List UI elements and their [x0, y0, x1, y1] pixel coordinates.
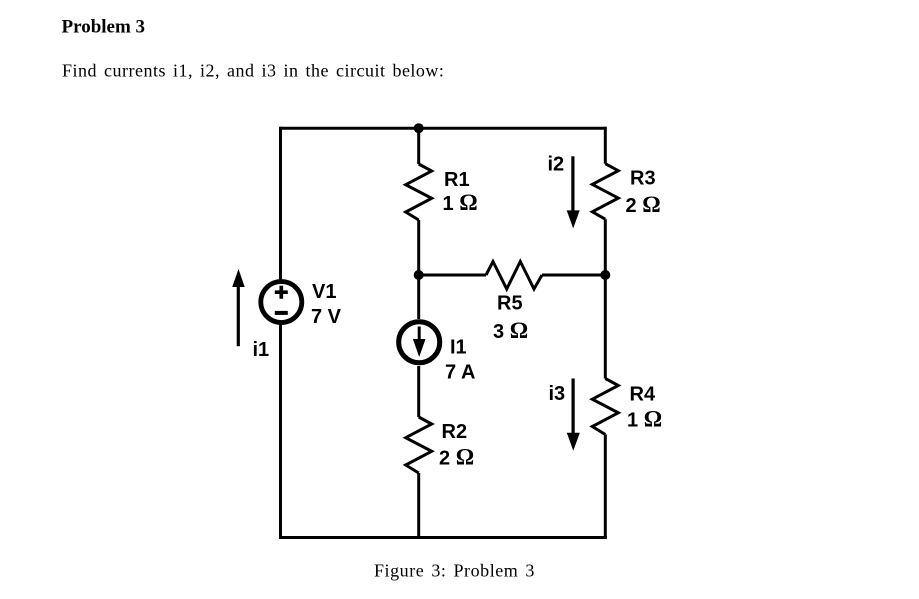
- svg-text:2 Ω: 2 Ω: [626, 192, 661, 217]
- wire middle top (node to R1): [417, 128, 420, 164]
- svg-text:i1: i1: [253, 339, 270, 361]
- resistor R3: [592, 164, 660, 220]
- svg-text:i3: i3: [549, 383, 566, 405]
- current arrow i3: [549, 379, 580, 451]
- wire I1 to R2: [417, 366, 420, 417]
- svg-text:1 Ω: 1 Ω: [627, 407, 662, 432]
- node right junction: [600, 270, 610, 280]
- svg-text:Problem 3: Problem 3: [62, 17, 146, 38]
- node middle junction: [414, 270, 424, 280]
- current source I1: [399, 322, 476, 384]
- wire R3 to right node: [604, 219, 607, 275]
- svg-text:V1: V1: [312, 281, 336, 303]
- wire R2 to bottom: [417, 473, 420, 538]
- svg-text:R1: R1: [444, 169, 470, 191]
- svg-text:i2: i2: [548, 154, 565, 176]
- voltage source V1: [261, 281, 342, 328]
- node top junction: [414, 123, 424, 133]
- svg-text:R4: R4: [630, 384, 656, 406]
- svg-text:7 A: 7 A: [445, 362, 475, 384]
- svg-text:R3: R3: [630, 168, 656, 190]
- svg-text:2 Ω: 2 Ω: [439, 445, 474, 470]
- svg-text:Find currents i1, i2, and i3 i: Find currents i1, i2, and i3 in the circ…: [62, 61, 444, 81]
- wire right node to R4: [604, 275, 607, 379]
- svg-text:R2: R2: [442, 421, 468, 443]
- wire middle node to R5: [419, 274, 486, 277]
- resistor R5: [486, 262, 542, 344]
- svg-text:Figure 3: Problem 3: Figure 3: Problem 3: [374, 561, 535, 581]
- current arrow i2: [548, 154, 580, 229]
- wire left upper: [279, 127, 282, 281]
- wire middle node to I1: [417, 275, 420, 319]
- resistor R1: [406, 164, 478, 220]
- current arrow i1: [232, 269, 269, 361]
- svg-text:I1: I1: [450, 337, 467, 359]
- wire R5 to right node: [542, 274, 605, 277]
- title Problem 3: [62, 17, 146, 38]
- wire left lower: [279, 322, 282, 538]
- svg-text:3 Ω: 3 Ω: [493, 318, 528, 343]
- wire top: [281, 127, 606, 130]
- wire right top (top to R3): [604, 127, 607, 164]
- resistor R4: [592, 379, 662, 435]
- wire R4 to bottom: [604, 435, 607, 540]
- wire bottom: [279, 536, 607, 539]
- body text: [62, 61, 444, 81]
- svg-text:1 Ω: 1 Ω: [443, 190, 478, 215]
- svg-text:7 V: 7 V: [311, 306, 342, 328]
- figure caption: [374, 561, 535, 581]
- svg-text:R5: R5: [497, 293, 523, 315]
- wire R1 to middle node: [417, 220, 420, 275]
- resistor R2: [406, 417, 474, 473]
